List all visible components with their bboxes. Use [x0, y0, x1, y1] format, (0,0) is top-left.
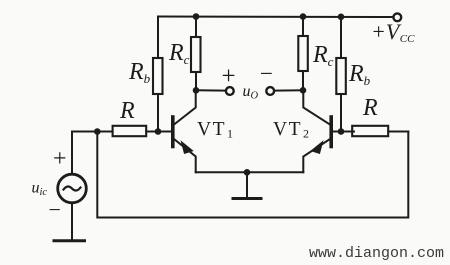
- svg-text:uO: uO: [243, 83, 259, 102]
- terminal output minus: [266, 87, 274, 95]
- wire ground stem: [246, 172, 248, 197]
- ground source: [54, 239, 85, 242]
- svg-text:VT2: VT2: [273, 119, 311, 141]
- svg-text:+VCC: +VCC: [371, 19, 415, 45]
- wire Rb2 top lead: [340, 17, 342, 59]
- transistor VT2 emitter arrow: [312, 142, 323, 154]
- wire R to VT2 base: [332, 131, 354, 133]
- transistor VT1 base bar: [171, 117, 175, 147]
- node Rc2 top junction: [300, 13, 307, 20]
- wire Rb1 bottom lead: [157, 94, 159, 131]
- transistor VT1 collector lead: [174, 90, 196, 124]
- wire R to VT1 base: [146, 131, 171, 133]
- node Rb1 base junction: [155, 128, 162, 135]
- svg-text:−: −: [260, 61, 273, 86]
- resistor R left: [113, 126, 147, 136]
- wire Rc2 top lead: [302, 17, 304, 37]
- node VT2 collector output junction: [300, 87, 307, 94]
- wire Rb2 bottom lead: [340, 94, 342, 131]
- svg-text:www.diangon.com: www.diangon.com: [309, 245, 444, 262]
- node input junction: [94, 128, 101, 135]
- wire Rc2 bottom lead: [302, 71, 304, 90]
- transistor VT1 emitter lead: [174, 139, 196, 172]
- resistor Rb1: [153, 58, 163, 94]
- wire Rc1 bottom lead: [195, 72, 197, 90]
- node emitter junction: [244, 169, 251, 176]
- wire output right: [274, 89, 303, 91]
- resistor Rb2: [336, 58, 346, 94]
- svg-text:VT1: VT1: [197, 119, 235, 141]
- svg-text:Rc: Rc: [168, 40, 190, 67]
- svg-text:Rb: Rb: [128, 59, 151, 86]
- ground main: [233, 197, 261, 200]
- wire source bottom lead: [71, 203, 73, 240]
- node Rb2 top junction: [338, 13, 345, 20]
- svg-text:R: R: [362, 95, 378, 121]
- svg-text:−: −: [49, 197, 61, 222]
- source uic circle: [58, 174, 87, 203]
- svg-text:uic: uic: [32, 180, 48, 199]
- wire input node horizontal: [72, 131, 113, 133]
- transistor VT1 emitter arrow: [182, 142, 193, 154]
- node Rc1 top junction: [193, 13, 200, 20]
- svg-text:R: R: [119, 98, 135, 124]
- transistor VT2 base bar: [329, 117, 333, 147]
- terminal output plus: [226, 87, 234, 95]
- terminal +Vcc: [393, 13, 401, 21]
- wire source top lead: [71, 132, 73, 175]
- source tilde: [64, 186, 81, 190]
- wire output left: [196, 89, 226, 91]
- wire R right to corner: [388, 131, 408, 133]
- svg-text:+: +: [53, 146, 67, 172]
- wire Rc1 top lead: [195, 17, 197, 38]
- resistor Rc1: [191, 37, 201, 72]
- resistor Rc2: [298, 36, 308, 71]
- transistor VT2 emitter lead: [303, 139, 330, 172]
- node VT1 collector output junction: [193, 87, 200, 94]
- wire emitter rail: [196, 171, 304, 173]
- svg-text:Rb: Rb: [348, 61, 371, 88]
- wire feedback loop: [97, 132, 408, 218]
- svg-text:Rc: Rc: [312, 42, 334, 69]
- node Rb2 base junction: [338, 128, 345, 135]
- transistor VT2 collector lead: [303, 90, 330, 124]
- wire top supply rail: [158, 16, 394, 19]
- wire Rb1 top lead: [157, 17, 159, 59]
- svg-text:+: +: [222, 63, 236, 90]
- resistor R right: [352, 126, 388, 136]
